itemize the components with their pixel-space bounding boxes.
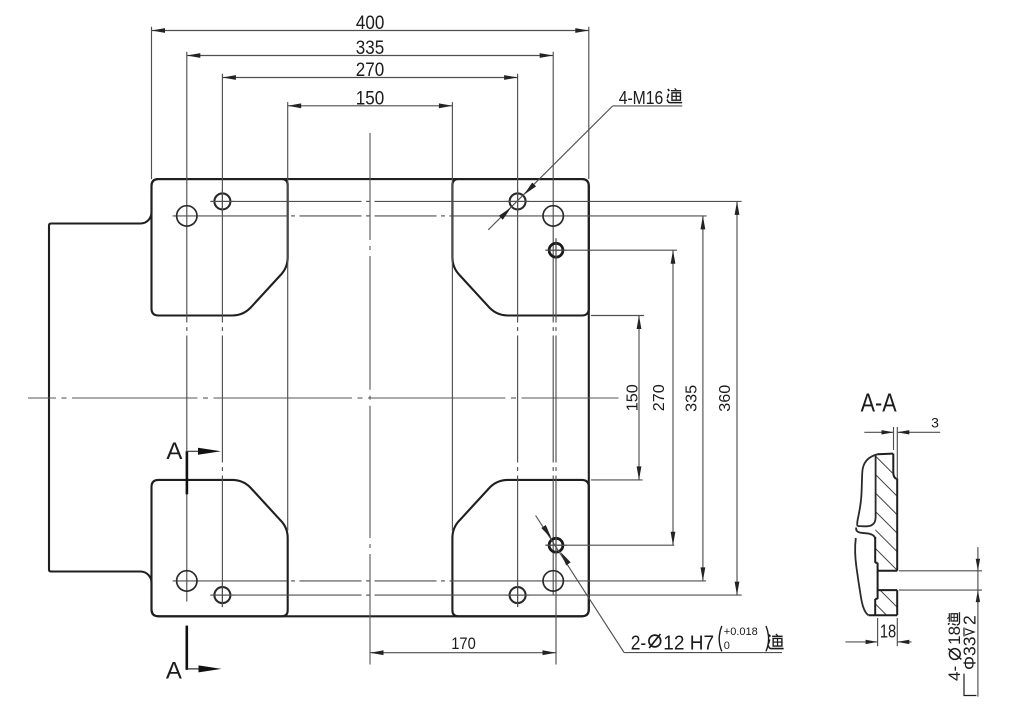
hole phi12 bottom: [546, 535, 567, 556]
dim 150 right (pad gap): [625, 316, 642, 480]
ext line 150top right / pad edge line: [451, 102, 453, 531]
horizontal centerline: [28, 397, 619, 399]
ext line 400 left: [151, 27, 153, 179]
hole phi18 top-right: [543, 206, 563, 226]
dim 170: [370, 634, 556, 655]
hole M16 bottom-left: [210, 583, 234, 607]
section cut mark A top: [166, 438, 221, 494]
svg-text:4-M16: 4-M16: [619, 87, 664, 108]
hole phi18 bottom-right: [543, 571, 563, 591]
ext line pads-top-edge right: [591, 479, 643, 481]
dim 400: [152, 13, 589, 34]
pad top-left: [152, 179, 288, 315]
pad bottom-right: [452, 480, 588, 616]
row line big holes bottom: [173, 580, 707, 582]
svg-text:270: 270: [651, 384, 668, 411]
svg-text:0: 0: [724, 640, 730, 652]
label leader 4-M16 tong: [488, 87, 682, 230]
section hatching: [850, 431, 910, 657]
vertical centerline: [369, 133, 371, 665]
svg-text:150: 150: [356, 88, 384, 109]
label leader 2-phi12 H7 +0.018/0 tong: [536, 516, 784, 655]
section cut mark A bottom: [166, 626, 222, 685]
section dim phi18 extents: [899, 547, 982, 697]
svg-text:335: 335: [356, 38, 384, 59]
hole phi18 top-left: [177, 206, 197, 226]
svg-text:2-: 2-: [631, 631, 647, 654]
svg-text:335: 335: [684, 385, 701, 412]
dim 270 top: [222, 60, 517, 81]
dim 335 top: [187, 38, 553, 59]
centerline big-hole col right: [552, 52, 554, 595]
svg-text:+0.018: +0.018: [724, 626, 758, 638]
svg-text:A: A: [166, 658, 182, 685]
hole phi12 top: [546, 240, 567, 261]
svg-text:A-A: A-A: [861, 388, 898, 418]
svg-text:A: A: [166, 438, 182, 465]
hole M16 top-left: [210, 189, 234, 213]
svg-text:150: 150: [625, 384, 642, 411]
section A-A cut body outline: [855, 454, 897, 616]
hole M16 bottom-right: [506, 583, 530, 607]
pad bottom-left: [152, 480, 288, 616]
dim 270 right (phi12 rows): [651, 250, 675, 545]
pad top-right: [452, 179, 588, 315]
svg-text:2: 2: [960, 615, 980, 625]
svg-text:Φ33: Φ33: [960, 637, 980, 670]
section dim 18: [846, 618, 912, 646]
svg-text:3: 3: [931, 415, 939, 431]
ext line pads-bottom-edge right: [591, 315, 644, 317]
svg-text:270: 270: [356, 60, 384, 81]
row line M16 top: [210, 200, 741, 202]
svg-text:12 H7: 12 H7: [663, 631, 714, 654]
svg-text:18: 18: [880, 622, 896, 642]
hole M16 top-right: [506, 189, 530, 213]
centerline M16 col left: [221, 74, 223, 607]
centerline phi12 col: [555, 238, 557, 664]
hole phi18 bottom-left: [177, 571, 197, 591]
row line big holes top: [173, 215, 707, 217]
centerline M16 col right: [517, 74, 519, 607]
plate outline with left tab: [49, 179, 589, 616]
section dim 3: [864, 415, 940, 480]
svg-text:400: 400: [356, 13, 384, 34]
svg-text:360: 360: [717, 385, 734, 412]
row line phi12 bottom: [545, 544, 674, 546]
svg-text:170: 170: [451, 634, 476, 653]
dim 335 right (big hole rows): [684, 216, 706, 581]
dim 360 right (M16 rows): [717, 201, 739, 595]
section title A-A: [861, 388, 898, 418]
ext line 150top left / pad edge line: [287, 102, 289, 531]
centerline big-hole col left / A-A line: [186, 52, 188, 602]
ext line 400 right: [588, 27, 590, 179]
section label 4-phi18 tong / phi33 depth2 (rotated): [945, 612, 979, 695]
dim 150 top: [288, 88, 453, 109]
row line phi12 top: [545, 249, 677, 251]
row line M16 bottom: [210, 594, 741, 596]
